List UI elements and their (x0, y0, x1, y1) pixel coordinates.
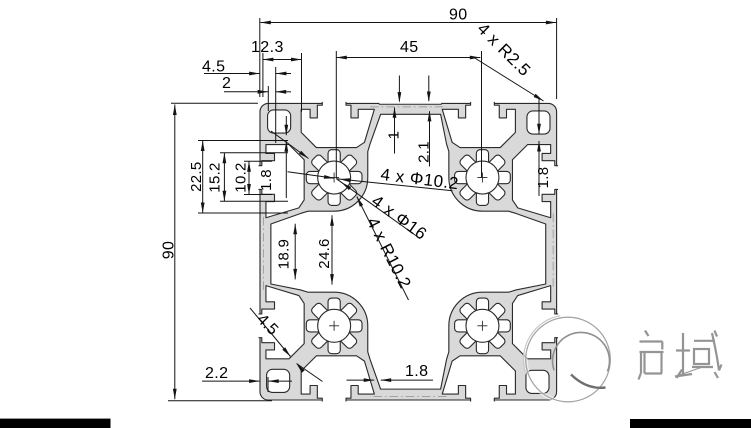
left face T-slots (259, 145, 305, 359)
black bar bottom-left (0, 419, 111, 428)
1mm recessed step on top face (379, 103, 442, 105)
svg-text:24.6: 24.6 (316, 238, 333, 268)
gear hole bottom-right (476, 298, 488, 315)
dimension 24.6 left (331, 215, 333, 284)
dimension 1.8 right (538, 99, 540, 134)
svg-text:2: 2 (222, 75, 231, 92)
svg-text:1.8: 1.8 (405, 363, 428, 380)
dimension 2 top (224, 91, 268, 93)
profile body 90x90 outer contour (260, 103, 557, 400)
svg-text:18.9: 18.9 (276, 239, 293, 269)
leader 4 x Phi16 (337, 179, 421, 239)
svg-text:1.8: 1.8 (535, 167, 552, 189)
witness arrows for 1 and 2.1 (398, 76, 400, 102)
dimension 2.2 bottom (202, 380, 260, 382)
gear hole top-left (4 x Phi16) (328, 150, 340, 167)
dimension 10.2 left (248, 161, 250, 194)
svg-text:22.5: 22.5 (188, 161, 205, 191)
svg-text:2.2: 2.2 (205, 365, 228, 382)
logo character QI (645, 331, 649, 337)
dimension 90 left (174, 105, 176, 400)
dimension 1.8 left (285, 116, 287, 135)
center mark bottom-left gear (329, 325, 339, 327)
dimension 90 top (260, 22, 556, 24)
dimension 2.1 (429, 111, 431, 166)
leader 4 x R10.2 (357, 197, 409, 301)
top face T-slots (301, 102, 515, 148)
right face T-slots (512, 145, 558, 359)
leader 4 x R2.5 (474, 58, 544, 102)
corner hole top-right (527, 111, 550, 134)
aluminium profile cross-section (259, 102, 559, 402)
diagonal leader to slot lip (271, 131, 309, 159)
svg-text:45: 45 (400, 39, 419, 56)
dimension 15.2 left (223, 153, 225, 202)
gear hole top-right (476, 150, 488, 167)
corner hole bottom-left (267, 369, 290, 392)
corner hole top-left (268, 110, 291, 133)
svg-text:1.8: 1.8 (258, 169, 275, 191)
dimension 1 (394, 108, 396, 154)
corner hole bottom-right (526, 370, 549, 393)
dimension 22.5 left (202, 141, 204, 214)
leader to gear center (288, 172, 335, 179)
center mark top-right gear (477, 177, 487, 179)
svg-text:4.5: 4.5 (202, 59, 225, 76)
svg-text:15.2: 15.2 (207, 162, 224, 192)
dimension 4.5 top (204, 73, 260, 75)
dimension 18.9 left (294, 224, 296, 280)
leader 4.5 bottom-left (250, 308, 291, 357)
svg-text:90: 90 (161, 241, 178, 259)
leader 4 x Phi10.2 (337, 179, 453, 191)
svg-text:90: 90 (449, 7, 468, 24)
dimension 45 (336, 57, 480, 59)
svg-text:2.1: 2.1 (416, 141, 433, 163)
svg-text:10.2: 10.2 (233, 162, 250, 192)
dimension 12.3 (263, 59, 302, 61)
center mark bottom-right gear (477, 325, 487, 327)
svg-text:12.3: 12.3 (251, 39, 284, 56)
bottom face T-slots (301, 356, 515, 402)
gear hole bottom-left (328, 298, 340, 315)
center cavity (271, 114, 546, 389)
logo character YU (682, 333, 684, 375)
center mark top-left gear (329, 177, 339, 179)
dimension 1.8 bottom (347, 379, 375, 381)
black bar bottom-right (630, 419, 751, 428)
logo circle mark (Qiyu) (526, 317, 611, 402)
svg-text:1: 1 (386, 131, 403, 140)
